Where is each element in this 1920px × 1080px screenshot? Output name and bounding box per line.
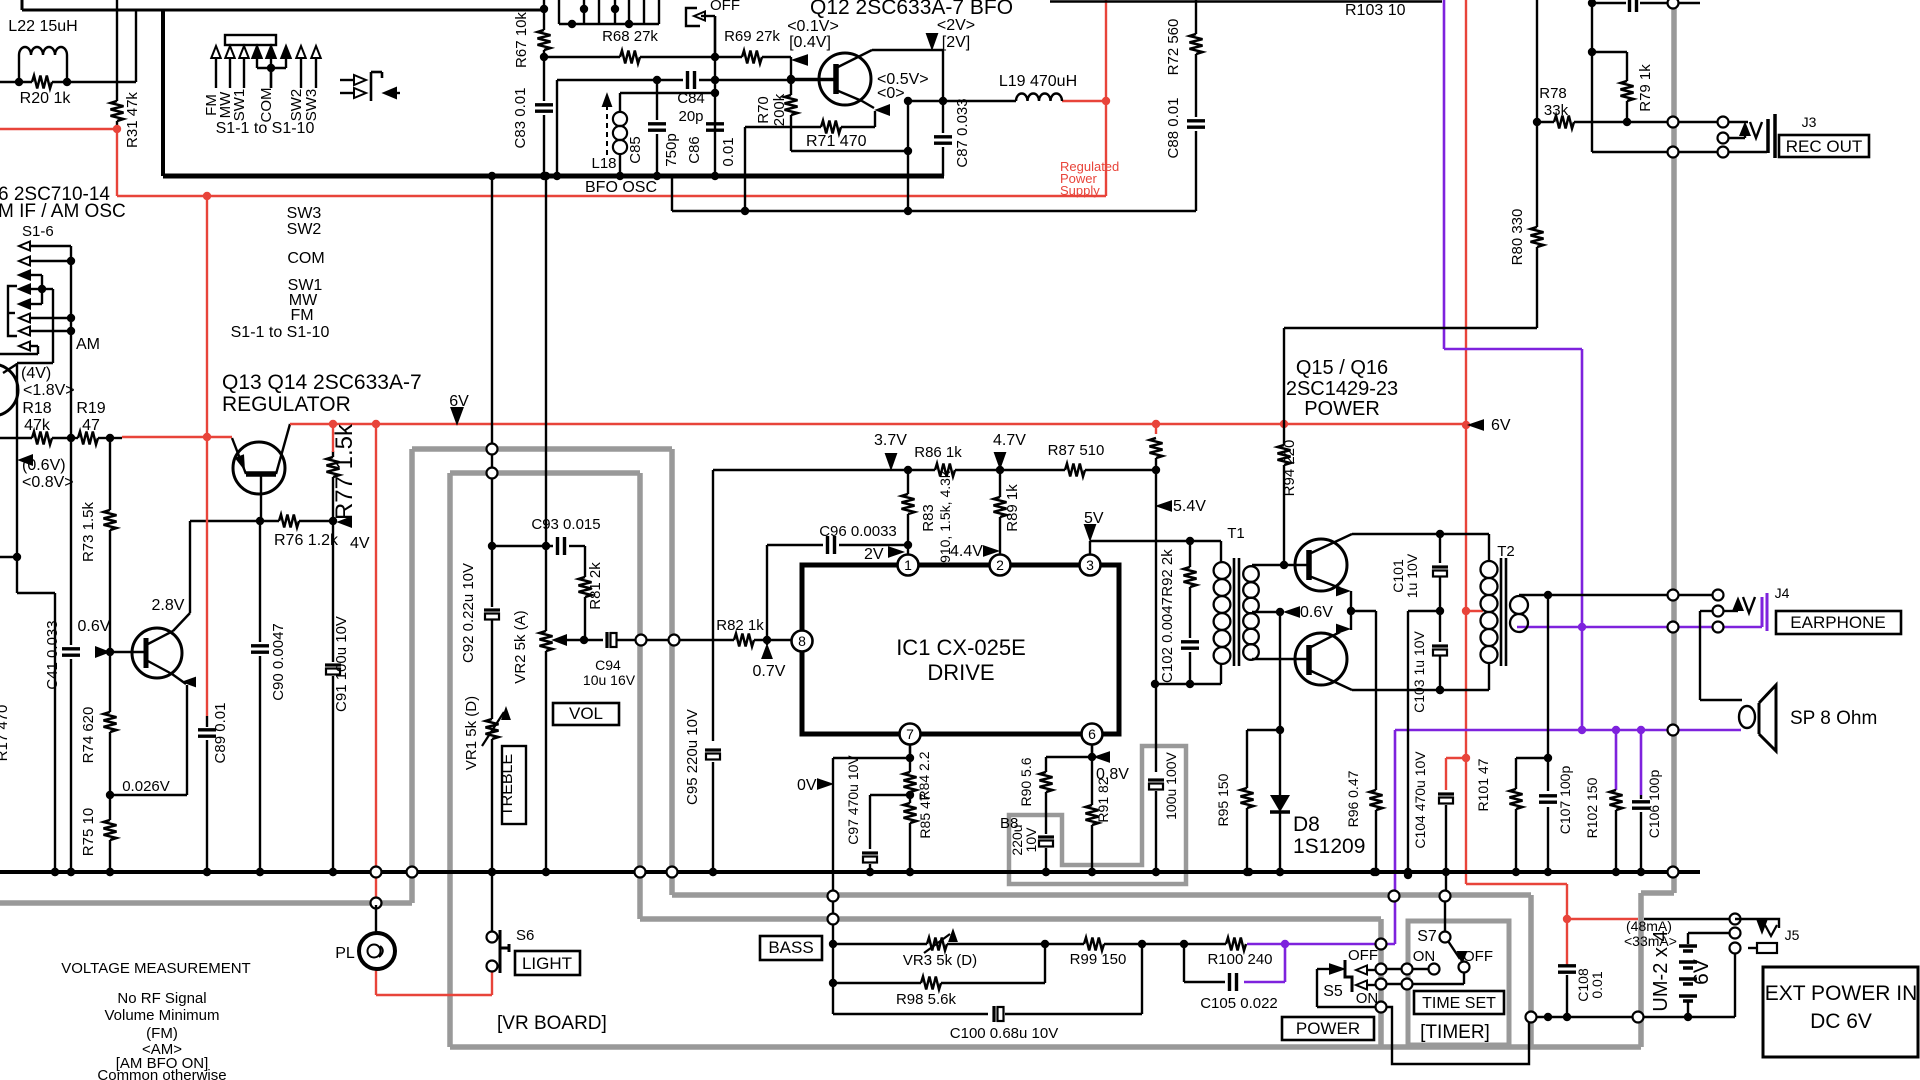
svg-text:6V: 6V [1491,417,1511,434]
svg-text:FM: FM [290,307,313,324]
svg-text:SW1: SW1 [231,89,248,122]
svg-text:(4V): (4V) [21,365,51,382]
svg-text:R83: R83 [920,504,937,532]
svg-text:IC1 CX-025E: IC1 CX-025E [896,635,1026,660]
svg-text:C83 0.01: C83 0.01 [512,88,529,149]
svg-text:BASS: BASS [768,938,813,957]
svg-text:COM: COM [287,250,324,267]
svg-text:C107 100p: C107 100p [1557,766,1573,835]
svg-text:0.026V: 0.026V [122,778,170,795]
svg-text:L22 15uH: L22 15uH [8,18,77,35]
svg-text:J5: J5 [1785,927,1800,943]
svg-text:OFF: OFF [1348,947,1378,964]
svg-text:4V: 4V [350,535,370,552]
svg-text:VOL: VOL [569,704,603,723]
svg-text:C90 0.0047: C90 0.0047 [270,623,287,701]
svg-text:EARPHONE: EARPHONE [1790,613,1885,632]
svg-text:0.6V: 0.6V [78,618,111,635]
svg-text:R85 47: R85 47 [917,793,933,838]
svg-text:R81 2k: R81 2k [587,562,604,610]
svg-text:3: 3 [1086,557,1094,573]
svg-text:S1-1 to S1-10: S1-1 to S1-10 [231,324,330,341]
svg-text:C93 0.015: C93 0.015 [531,516,600,533]
svg-text:(FM): (FM) [146,1025,178,1042]
svg-text:R100 240: R100 240 [1207,951,1272,968]
svg-text:R84 2.2: R84 2.2 [916,751,932,800]
svg-text:4.7V: 4.7V [993,432,1026,449]
svg-text:R86 1k: R86 1k [914,444,962,461]
svg-text:R70: R70 [755,96,772,124]
svg-text:C89 0.01: C89 0.01 [212,703,229,764]
svg-text:7: 7 [906,726,914,742]
svg-text:No RF Signal: No RF Signal [117,990,206,1007]
svg-text:Q15 / Q16: Q15 / Q16 [1296,357,1388,379]
svg-text:C84: C84 [677,90,705,107]
svg-text:R102 150: R102 150 [1584,777,1600,838]
svg-text:910, 1.5k, 4.3k: 910, 1.5k, 4.3k [937,470,953,563]
svg-text:R68 27k: R68 27k [602,28,658,45]
svg-text:TIME SET: TIME SET [1422,995,1496,1012]
svg-text:L19 470uH: L19 470uH [999,73,1077,90]
svg-text:EXT POWER IN: EXT POWER IN [1765,982,1917,1005]
svg-text:R31 47k: R31 47k [124,92,141,148]
svg-text:Q13 Q14 2SC633A-7: Q13 Q14 2SC633A-7 [222,371,422,394]
svg-text:C94: C94 [595,657,621,673]
svg-text:20p: 20p [678,108,703,125]
svg-text:R98 5.6k: R98 5.6k [896,991,957,1008]
svg-text:[0.4V]: [0.4V] [789,34,831,51]
svg-text:POWER: POWER [1304,398,1380,420]
svg-text:ON: ON [1413,948,1436,965]
svg-text:DC 6V: DC 6V [1810,1010,1872,1033]
svg-text:750p: 750p [663,133,680,166]
svg-text:R78: R78 [1539,85,1567,102]
svg-text:COM: COM [258,88,275,123]
svg-text:R77 1.5k: R77 1.5k [331,423,358,520]
svg-text:C96 0.0033: C96 0.0033 [819,523,897,540]
svg-text:2SC1429-23: 2SC1429-23 [1286,378,1398,400]
svg-text:R103 10: R103 10 [1345,2,1406,19]
svg-text:Common otherwise: Common otherwise [97,1067,226,1080]
svg-text:BFO OSC: BFO OSC [585,179,657,196]
svg-text:4.4V: 4.4V [950,543,983,560]
svg-text:R94 220: R94 220 [1281,440,1298,497]
svg-text:2: 2 [996,557,1004,573]
svg-text:DRIVE: DRIVE [927,660,994,685]
svg-text:R92 2k: R92 2k [1159,549,1176,597]
svg-text:SW3: SW3 [303,89,320,122]
svg-text:R20 1k: R20 1k [20,90,72,107]
svg-text:SW2: SW2 [287,221,322,238]
svg-text:10V: 10V [1023,827,1039,853]
svg-text:(0.6V): (0.6V) [22,457,66,474]
svg-text:REGULATOR: REGULATOR [222,393,351,416]
svg-text:Supply: Supply [1060,183,1100,198]
svg-text:R96 0.47: R96 0.47 [1345,770,1361,827]
svg-text:<0.8V>: <0.8V> [22,474,74,491]
svg-text:R17 470: R17 470 [0,705,11,762]
svg-text:S1-1 to S1-10: S1-1 to S1-10 [216,120,315,137]
svg-text:R99 150: R99 150 [1070,951,1127,968]
svg-text:1S1209: 1S1209 [1293,835,1365,858]
svg-text:[2V]: [2V] [942,34,970,51]
svg-text:SP 8 Ohm: SP 8 Ohm [1790,708,1877,729]
svg-text:R72 560: R72 560 [1165,19,1182,76]
svg-text:REC OUT: REC OUT [1786,137,1863,156]
svg-text:8: 8 [798,633,806,649]
svg-text:C100 0.68u 10V: C100 0.68u 10V [950,1025,1058,1042]
svg-text:2.8V: 2.8V [152,597,185,614]
svg-text:0.01: 0.01 [1589,971,1605,998]
svg-text:1: 1 [904,557,912,573]
svg-text:C85: C85 [627,136,644,164]
svg-text:M IF / AM OSC: M IF / AM OSC [0,201,126,222]
svg-text:C104 470u 10V: C104 470u 10V [1412,751,1428,849]
svg-text:Volume Minimum: Volume Minimum [104,1007,219,1024]
svg-text:D8: D8 [1293,813,1320,836]
svg-text:AM: AM [76,336,100,353]
svg-text:0V: 0V [797,777,817,794]
svg-text:2V: 2V [864,546,884,563]
svg-text:S7: S7 [1417,928,1437,945]
svg-text:R18: R18 [22,400,51,417]
svg-text:J4: J4 [1775,585,1790,601]
svg-text:R76 1.2k: R76 1.2k [274,532,339,549]
svg-text:POWER: POWER [1296,1019,1360,1038]
svg-text:S6: S6 [516,927,534,944]
svg-text:0.7V: 0.7V [753,663,786,680]
svg-text:C86: C86 [686,136,703,164]
svg-text:VR2 5k (A): VR2 5k (A) [512,610,529,683]
svg-text:100u 100V: 100u 100V [1163,751,1179,819]
svg-text:C106 100p: C106 100p [1646,770,1662,839]
svg-text:47k: 47k [24,417,51,434]
svg-text:C102 0.0047: C102 0.0047 [1159,597,1176,683]
svg-text:200k: 200k [771,93,788,126]
svg-text:R101 47: R101 47 [1475,758,1491,811]
svg-text:LIGHT: LIGHT [522,954,572,973]
svg-text:3.7V: 3.7V [874,432,907,449]
svg-text:C103 1u 10V: C103 1u 10V [1411,630,1427,712]
svg-text:R71 470: R71 470 [806,133,867,150]
svg-text:UM-2 x 4: UM-2 x 4 [1650,930,1672,1011]
svg-text:C88 0.01: C88 0.01 [1165,98,1182,159]
svg-text:OFF: OFF [710,0,740,14]
svg-text:10u 16V: 10u 16V [583,672,636,688]
svg-text:T2: T2 [1497,543,1515,560]
svg-text:R75 10: R75 10 [80,808,97,856]
svg-text:R69 27k: R69 27k [724,28,780,45]
svg-text:OFF: OFF [1463,948,1493,965]
svg-text:T1: T1 [1227,525,1245,542]
svg-text:R90 5.6: R90 5.6 [1018,757,1034,806]
svg-text:5.4V: 5.4V [1173,498,1206,515]
svg-text:R89 1k: R89 1k [1004,484,1021,532]
svg-text:[TIMER]: [TIMER] [1420,1022,1490,1043]
svg-text:R19: R19 [76,400,105,417]
svg-text:0.01: 0.01 [720,137,737,166]
svg-text:R73 1.5k: R73 1.5k [80,501,97,562]
svg-text:TREBLE: TREBLE [499,754,516,816]
svg-text:0.6V: 0.6V [1300,604,1333,621]
svg-text:R87 510: R87 510 [1048,442,1105,459]
svg-text:<0>: <0> [877,85,905,102]
svg-text:C92 0.22u 10V: C92 0.22u 10V [460,563,477,663]
svg-text:C97 470u 10V: C97 470u 10V [845,755,861,845]
svg-text:ON: ON [1356,990,1379,1007]
svg-text:VR1 5k (D): VR1 5k (D) [463,696,480,770]
svg-text:S1-6: S1-6 [22,223,54,240]
svg-text:C87 0.033: C87 0.033 [954,98,971,167]
svg-text:6: 6 [1088,726,1096,742]
svg-text:C95 220u 10V: C95 220u 10V [684,709,701,805]
svg-text:R67 10k: R67 10k [513,12,530,68]
svg-text:R82 1k: R82 1k [716,617,764,634]
svg-text:R74 620: R74 620 [80,707,97,764]
svg-text:[VR BOARD]: [VR BOARD] [497,1013,607,1034]
svg-text:<2V>: <2V> [937,17,975,34]
svg-text:Q12 2SC633A-7 BFO: Q12 2SC633A-7 BFO [810,0,1013,19]
svg-text:47: 47 [82,417,100,434]
svg-text:<1.8V>: <1.8V> [23,382,75,399]
svg-text:SW3: SW3 [287,205,322,222]
svg-text:6V: 6V [1690,959,1713,985]
svg-text:C105 0.022: C105 0.022 [1200,995,1278,1012]
svg-text:<0.1V>: <0.1V> [787,18,839,35]
svg-text:33k: 33k [1544,102,1569,119]
svg-text:R80 330: R80 330 [1509,209,1526,266]
svg-text:C91 100u 10V: C91 100u 10V [333,616,350,712]
svg-text:R95 150: R95 150 [1215,773,1231,826]
svg-text:VOLTAGE MEASUREMENT: VOLTAGE MEASUREMENT [61,960,250,977]
svg-text:VR3 5k (D): VR3 5k (D) [903,952,977,969]
svg-text:J3: J3 [1802,114,1817,130]
svg-text:R79 1k: R79 1k [1637,64,1654,112]
svg-text:C41 0.033: C41 0.033 [44,620,61,689]
svg-text:1u 10V: 1u 10V [1404,553,1420,598]
svg-text:PL: PL [335,945,355,962]
svg-text:R91 82: R91 82 [1095,777,1111,822]
svg-text:L18: L18 [591,155,616,172]
svg-text:S5: S5 [1323,983,1343,1000]
